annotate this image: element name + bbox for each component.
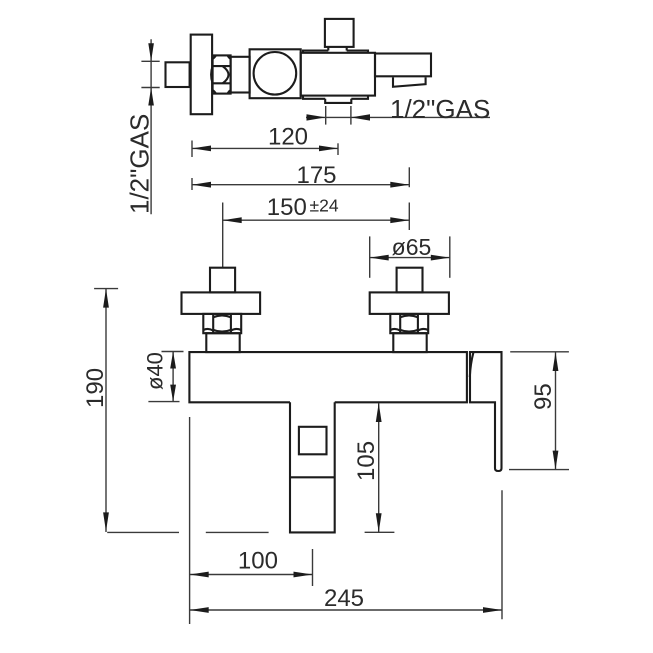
connector sleeve — [231, 57, 250, 93]
left union stem — [210, 268, 235, 293]
handle face line — [470, 353, 474, 378]
arrow up — [148, 88, 154, 106]
svg-text:1/2"GAS: 1/2"GAS — [390, 94, 490, 124]
ext line body left — [189, 417, 191, 624]
floor line mid — [206, 531, 269, 533]
arrow right — [307, 114, 326, 120]
left connector sleeve — [206, 333, 239, 352]
diverter stem — [328, 47, 346, 51]
svg-text:1/2"GAS: 1/2"GAS — [125, 114, 155, 214]
dim 175 — [192, 184, 409, 186]
svg-text:175: 175 — [296, 162, 336, 189]
mixer body front — [189, 352, 467, 402]
diverter knob — [325, 19, 354, 47]
svg-text:245: 245 — [324, 585, 364, 612]
dim 95 — [555, 352, 557, 470]
floor line left — [107, 531, 179, 533]
dim 105 — [378, 403, 380, 532]
top plate — [303, 51, 368, 53]
svg-text:95: 95 — [530, 383, 557, 410]
ext line handle right — [501, 490, 503, 619]
cartridge housing square — [250, 49, 301, 98]
wall pipe stub — [166, 62, 190, 87]
svg-text:190: 190 — [82, 368, 109, 408]
arrow left — [351, 114, 370, 120]
dim 1/2"GAS left vertical line — [150, 39, 152, 214]
spout upper — [375, 54, 431, 77]
right union stem — [397, 268, 423, 293]
left hex nut — [203, 314, 241, 333]
right hex nut — [390, 314, 428, 333]
spout tip — [393, 77, 426, 86]
dim ø40 — [172, 352, 174, 402]
arrow down — [148, 43, 154, 61]
right connector sleeve — [393, 333, 426, 352]
wall flange — [191, 35, 212, 115]
handle lever — [470, 352, 502, 471]
dim ø65 — [369, 236, 371, 277]
dim 150±24 — [223, 219, 410, 221]
svg-text:150: 150 — [267, 194, 307, 221]
tube divider — [290, 476, 335, 478]
ext line left — [325, 106, 327, 125]
svg-text:100: 100 — [238, 548, 278, 575]
bottom plate — [303, 96, 368, 99]
tick top — [141, 60, 159, 62]
shower outlet tab 1/2 gas — [325, 99, 351, 103]
svg-text:ø65: ø65 — [392, 234, 432, 260]
ext line right — [350, 106, 352, 125]
right union flange — [370, 292, 449, 314]
dim 100 — [190, 574, 313, 576]
hand shower tube — [290, 402, 335, 532]
svg-text:±24: ±24 — [310, 196, 339, 216]
left union flange — [182, 292, 261, 314]
tick bottom — [141, 87, 159, 89]
dim 1/2"GAS tab leader — [306, 116, 490, 118]
dim 190 — [105, 289, 107, 532]
cartridge circle — [254, 52, 297, 95]
svg-text:105: 105 — [353, 441, 380, 481]
hex nut (side view) — [211, 55, 231, 93]
dim 120 — [192, 147, 338, 149]
dim 245 — [190, 609, 502, 611]
tube square detail — [299, 427, 327, 455]
svg-text:120: 120 — [268, 124, 308, 151]
svg-text:ø40: ø40 — [143, 352, 168, 390]
main body (top view) — [301, 53, 375, 96]
